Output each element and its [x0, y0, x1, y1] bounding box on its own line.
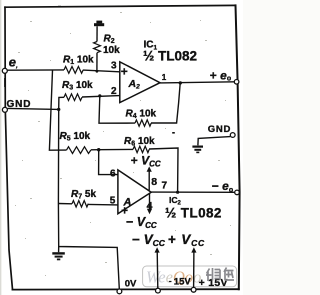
svg-text:½ TL082: ½ TL082: [165, 206, 222, 221]
svg-text:0V: 0V: [125, 279, 137, 290]
svg-text:10k: 10k: [103, 45, 120, 56]
svg-text:8: 8: [151, 176, 157, 188]
svg-text:GND: GND: [208, 124, 231, 135]
svg-text:R3 10k: R3 10k: [62, 80, 93, 92]
svg-text:1: 1: [162, 73, 167, 82]
svg-text:R4 10k: R4 10k: [126, 109, 157, 121]
svg-text:4: 4: [147, 200, 153, 212]
svg-text:15V: 15V: [174, 277, 192, 288]
svg-text:-: -: [169, 276, 172, 286]
svg-text:5: 5: [110, 196, 116, 207]
svg-text:R1 10k: R1 10k: [63, 55, 94, 67]
svg-text:R5 10k: R5 10k: [60, 131, 91, 143]
svg-text:+: +: [121, 64, 128, 78]
svg-text:6: 6: [110, 168, 116, 179]
svg-text:R7 5k: R7 5k: [71, 189, 96, 201]
svg-text:GND: GND: [7, 99, 32, 110]
svg-text:½ TL082: ½ TL082: [143, 49, 197, 64]
svg-text:7: 7: [162, 180, 168, 191]
svg-text:3: 3: [111, 61, 117, 72]
svg-text:R6 10k: R6 10k: [124, 136, 155, 148]
svg-text:2: 2: [111, 86, 117, 97]
